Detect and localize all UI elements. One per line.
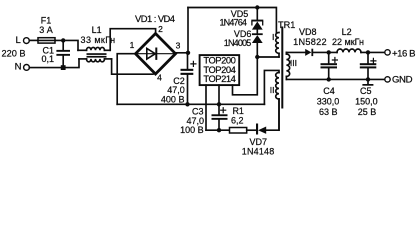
svg-text:330,0: 330,0 bbox=[317, 96, 340, 106]
node L/C1 junction bbox=[61, 38, 65, 42]
svg-text:1N4148: 1N4148 bbox=[242, 147, 275, 157]
svg-text:+16 В: +16 В bbox=[392, 48, 416, 59]
wire fuse to L1 bbox=[55, 40, 78, 50]
terminal +16 В bbox=[385, 50, 390, 55]
wire drain pin to primary bottom bbox=[233, 57, 258, 95]
wire bridge pin 1 to common rail bbox=[117, 54, 135, 105]
wire source pin down bbox=[205, 85, 207, 130]
capacitor C4 bbox=[321, 52, 338, 79]
wire control pin to C3 node bbox=[218, 85, 220, 104]
svg-text:1N4764: 1N4764 bbox=[219, 17, 247, 27]
svg-text:25 В: 25 В bbox=[358, 107, 377, 117]
svg-text:TR1: TR1 bbox=[278, 20, 295, 30]
svg-text:1N5822: 1N5822 bbox=[293, 37, 327, 47]
svg-text:400 В: 400 В bbox=[161, 94, 185, 104]
node C4 bottom bbox=[327, 77, 331, 81]
terminal L bbox=[24, 38, 30, 44]
capacitor C1 bbox=[56, 40, 70, 67]
svg-text:L2: L2 bbox=[342, 27, 352, 37]
svg-text:220 В: 220 В bbox=[1, 48, 25, 58]
wire N terminal to L1 bbox=[29, 59, 79, 68]
wire + rail to transformer bbox=[188, 8, 276, 33]
svg-text:N: N bbox=[15, 62, 22, 73]
wire L1 top to bridge pin 2 bbox=[110, 29, 155, 51]
svg-text:F1: F1 bbox=[41, 15, 52, 25]
svg-text:II: II bbox=[270, 85, 275, 95]
wire C2 node up to +rail bbox=[187, 8, 189, 53]
node C3 top / rail bbox=[217, 102, 221, 106]
IC U1 TOP200/204/214 bbox=[200, 55, 240, 85]
terminal N bbox=[24, 65, 30, 71]
svg-text:63 В: 63 В bbox=[319, 107, 338, 117]
capacitor C5 bbox=[360, 52, 377, 79]
svg-text:C5: C5 bbox=[360, 86, 372, 96]
bridge rectifier VD1:VD4 bbox=[136, 34, 176, 75]
svg-text:47,0: 47,0 bbox=[167, 85, 185, 95]
resistor R1 bbox=[230, 128, 247, 134]
winding III (secondary) bbox=[286, 52, 289, 79]
svg-text:TOP214: TOP214 bbox=[203, 73, 236, 84]
node C5 bottom bbox=[366, 77, 370, 81]
svg-text:III: III bbox=[290, 58, 297, 68]
transformer core bbox=[281, 28, 283, 108]
node bridge+ / C2 top bbox=[186, 51, 190, 55]
winding I (primary) bbox=[276, 33, 279, 58]
svg-text:C4: C4 bbox=[323, 86, 335, 96]
svg-text:1N4005: 1N4005 bbox=[224, 38, 252, 48]
svg-text:100 В: 100 В bbox=[180, 125, 204, 135]
svg-text:VD8: VD8 bbox=[299, 27, 317, 37]
inductor L2 bbox=[337, 49, 385, 52]
wire source rail bbox=[206, 129, 230, 131]
node +rail / VD5 bbox=[255, 5, 259, 9]
capacitor C3 bbox=[212, 104, 228, 130]
svg-text:4: 4 bbox=[157, 73, 162, 83]
fuse F1 bbox=[38, 38, 55, 43]
svg-text:GND: GND bbox=[392, 75, 413, 86]
wire bridge pin 3 to C2 node bbox=[176, 52, 189, 54]
node L2 / C5 bbox=[366, 50, 370, 54]
svg-text:3 А: 3 А bbox=[39, 25, 53, 35]
wire L1 bottom to bridge pin 4 bbox=[112, 59, 153, 74]
svg-text:3: 3 bbox=[176, 41, 181, 51]
node C2 bottom / rail bbox=[185, 102, 189, 106]
wire secondary top to VD8 bbox=[286, 51, 305, 53]
winding II (bias) bbox=[264, 70, 279, 130]
node C3 bottom / rail bbox=[217, 128, 221, 132]
svg-text:150,0: 150,0 bbox=[355, 96, 378, 106]
svg-text:1: 1 bbox=[130, 40, 135, 50]
wire L terminal to fuse bbox=[29, 39, 38, 41]
wire common rail (bottom primary rail) bbox=[117, 103, 264, 105]
zener VD5 1N4764 bbox=[251, 8, 263, 34]
inductor L1 (common-mode choke) bbox=[78, 47, 112, 61]
capacitor C2 bbox=[181, 53, 196, 105]
diode VD7 1N4148 bbox=[256, 99, 279, 135]
wire R1 to VD7 bbox=[247, 129, 256, 131]
svg-text:VD1 : VD4: VD1 : VD4 bbox=[135, 13, 175, 24]
svg-text:VD7: VD7 bbox=[249, 137, 267, 147]
diode VD6 1N4005 bbox=[252, 33, 263, 57]
svg-text:6,2: 6,2 bbox=[231, 116, 244, 126]
svg-text:I: I bbox=[272, 32, 274, 42]
svg-text:22 мкГн: 22 мкГн bbox=[332, 37, 364, 47]
diode VD8 1N5822 bbox=[305, 49, 337, 56]
node VD8 / C4 bbox=[327, 50, 331, 54]
node drain / primary bottom bbox=[255, 55, 259, 59]
svg-text:2: 2 bbox=[158, 24, 163, 34]
wire drain node to primary winding bbox=[257, 56, 279, 58]
wire GND rail bbox=[286, 78, 385, 80]
terminal GND bbox=[385, 77, 390, 82]
node N/C1 junction bbox=[61, 65, 66, 70]
svg-text:0,1: 0,1 bbox=[41, 54, 54, 64]
ground symbol bbox=[362, 79, 373, 85]
svg-text:L: L bbox=[16, 35, 21, 46]
svg-text:L1: L1 bbox=[92, 25, 102, 35]
